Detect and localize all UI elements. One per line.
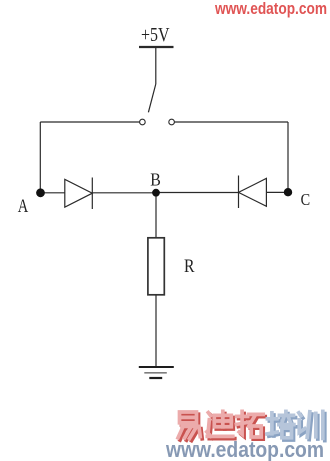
wire: left vertical drop to node A xyxy=(39,122,41,193)
node A junction dot xyxy=(36,188,45,197)
switch S1 lever xyxy=(148,84,155,112)
svg-text:R: R xyxy=(184,256,195,277)
ground bar 2 xyxy=(144,372,167,374)
svg-text:C: C xyxy=(301,190,311,209)
wire: diode D1 to node B xyxy=(92,192,156,194)
switch S1 right terminal xyxy=(169,119,175,125)
ground bar 1 xyxy=(139,366,174,368)
diode D1 cathode bar xyxy=(91,178,93,210)
svg-text:B: B xyxy=(150,169,161,189)
wire: +5V bar down to switch lever xyxy=(155,47,157,84)
svg-text:+5V: +5V xyxy=(141,24,170,46)
power rail bar (+5V) xyxy=(139,46,174,48)
node B junction dot xyxy=(152,189,160,197)
svg-text:A: A xyxy=(18,196,29,217)
diode D2 cathode bar xyxy=(238,176,240,209)
wire: left top rail xyxy=(40,121,139,123)
wire: node B to diode D2 cathode bar xyxy=(156,192,239,194)
diode D2 triangle xyxy=(239,178,267,206)
switch S1 left terminal xyxy=(140,119,146,125)
ground bar 3 xyxy=(149,377,162,379)
watermark: bottom 易迪拓培训 (drawn strokes) xyxy=(178,411,325,440)
wire: right vertical drop to node C xyxy=(287,122,289,192)
wire: right top rail xyxy=(175,121,289,123)
resistor R body xyxy=(148,238,164,295)
wire: diode D2 to node C xyxy=(266,191,288,193)
node C junction dot xyxy=(284,188,292,196)
diode D1 triangle xyxy=(65,179,93,207)
wire: node A to diode D1 anode xyxy=(40,192,65,194)
wire: node B down to resistor R xyxy=(155,193,157,238)
wire: resistor R to ground xyxy=(155,295,157,367)
svg-text:www.edatop.com: www.edatop.com xyxy=(214,0,327,18)
svg-text:www.edatop.com: www.edatop.com xyxy=(165,437,324,461)
